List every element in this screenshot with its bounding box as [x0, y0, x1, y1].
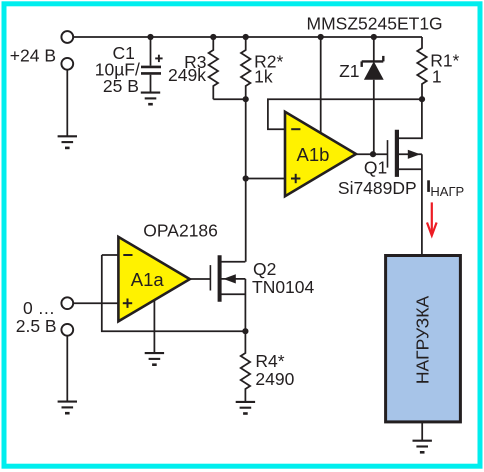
- wire R3 bottom to R2 bottom: [213, 98, 245, 100]
- svg-text:2490: 2490: [255, 369, 294, 389]
- Q1 drain stub: [398, 99, 422, 138]
- svg-text:Z1: Z1: [339, 61, 359, 81]
- wire A1a output to Q2 gate: [190, 278, 211, 280]
- wire zener Z1 top: [373, 37, 375, 61]
- wire load to ground: [421, 422, 423, 441]
- current arrow: [427, 202, 437, 235]
- wire A1b output to Q1 gate: [356, 153, 388, 155]
- ground: [413, 441, 432, 453]
- svg-text:Si7489DP: Si7489DP: [338, 178, 417, 198]
- Q1 source stub: [398, 153, 422, 155]
- node A1b plus: [243, 175, 249, 181]
- transistor Q2 gate bar: [209, 265, 211, 290]
- op-amp A1a: [118, 237, 189, 321]
- node A1b V+: [318, 34, 324, 40]
- wire input to A1a plus: [73, 302, 118, 304]
- svg-text:OPA2186: OPA2186: [143, 221, 218, 241]
- wire node R2bottom down to Q2 drain: [245, 99, 247, 262]
- node R1 bottom: [419, 96, 425, 102]
- svg-text:A1a: A1a: [131, 269, 165, 290]
- zener Z1 anode triangle: [364, 61, 384, 79]
- node R2 bottom: [243, 96, 249, 102]
- op-amp A1b: [285, 112, 356, 196]
- svg-text:A1b: A1b: [297, 144, 330, 165]
- resistor R4: [241, 331, 250, 402]
- svg-text:25 В: 25 В: [103, 76, 139, 96]
- transistor Q1 channel bar: [395, 130, 399, 177]
- svg-text:+24 В: +24 В: [10, 45, 56, 65]
- load box: [386, 256, 461, 422]
- wire A1b V+ pin: [320, 37, 322, 134]
- svg-text:2.5 В: 2.5 В: [16, 316, 57, 336]
- svg-text:TN0104: TN0104: [252, 277, 315, 297]
- A1b plus sign: [291, 178, 300, 180]
- terminal input top: [61, 297, 73, 309]
- wire terminal2 to ground: [66, 70, 68, 137]
- wire A1a V- pin to ground: [153, 300, 155, 354]
- terminal +24V top: [61, 31, 73, 43]
- node R4 top: [242, 328, 248, 334]
- capacitor C1: [150, 37, 152, 66]
- wire A1b plus input: [246, 178, 285, 180]
- resistor R2: [241, 37, 250, 99]
- opamp A1a minus input wire: [102, 254, 119, 256]
- node R2 top: [243, 34, 249, 40]
- wire feedback R1 bottom to A1b minus: [268, 99, 422, 129]
- wire zener Z1 bottom to A1b output: [373, 80, 375, 154]
- Q2 body stub: [221, 278, 246, 280]
- A1a minus sign: [123, 254, 132, 256]
- Q1 body stub: [398, 168, 422, 170]
- svg-text:Q1: Q1: [364, 158, 387, 178]
- ground: [141, 93, 160, 105]
- A1a plus sign: [123, 302, 132, 304]
- transistor Q2 channel bar: [218, 255, 222, 302]
- ground: [58, 402, 77, 414]
- svg-text:1: 1: [432, 67, 442, 87]
- wire Q2 source down to R4: [244, 279, 246, 331]
- Q1 body arrow: [408, 150, 421, 159]
- wire top rail: [73, 36, 422, 38]
- wire Q1 source down to load: [421, 154, 423, 255]
- svg-text:Q2: Q2: [253, 259, 276, 279]
- svg-text:MMSZ5245ET1G: MMSZ5245ET1G: [307, 14, 443, 34]
- resistor R1: [417, 37, 426, 99]
- svg-text:НАГР: НАГР: [430, 184, 464, 199]
- label I load: [427, 180, 430, 192]
- node A1b output: [370, 151, 376, 157]
- A1b minus sign: [291, 128, 300, 130]
- svg-text:249k: 249k: [168, 65, 206, 85]
- Q2 source stub: [221, 293, 246, 295]
- terminal input return: [61, 324, 73, 336]
- ground: [58, 136, 77, 148]
- ground: [145, 353, 164, 365]
- zener Z1 cathode bar: [362, 56, 384, 67]
- ground: [236, 402, 255, 414]
- svg-text:1k: 1k: [254, 67, 273, 87]
- Q2 body arrow: [223, 274, 236, 283]
- C1 plus sign: [155, 55, 162, 62]
- node C1 top: [147, 34, 153, 40]
- transistor Q1 gate bar: [387, 140, 389, 168]
- node R3 top: [210, 34, 216, 40]
- wire input return to ground: [66, 336, 68, 402]
- terminal +24V return: [61, 58, 73, 70]
- node Z1 top: [371, 34, 377, 40]
- Q2 drain stub: [221, 261, 246, 263]
- resistor R3: [209, 37, 218, 99]
- wire A1a feedback: [102, 255, 246, 331]
- svg-text:НАГРУЗКА: НАГРУЗКА: [413, 296, 433, 385]
